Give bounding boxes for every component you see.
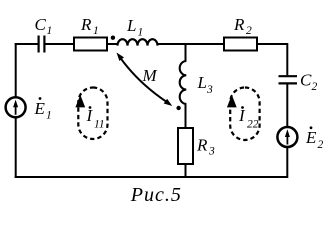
label L1: [126, 16, 143, 39]
svg-text:C: C: [35, 15, 47, 34]
svg-text:R: R: [80, 15, 92, 34]
wire E2 to bottom-right corner: [15, 147, 289, 178]
svg-text:3: 3: [208, 146, 215, 158]
svg-text:Рис.5: Рис.5: [130, 184, 182, 206]
svg-text:I: I: [86, 106, 94, 125]
label L3: [197, 73, 214, 96]
svg-text:E: E: [305, 128, 317, 147]
wire R3 to bottom: [185, 164, 187, 177]
dot mark L3: [176, 106, 180, 110]
svg-text:1: 1: [93, 25, 99, 37]
svg-text:1: 1: [46, 110, 52, 122]
loop current I11 dashed loop: [75, 88, 107, 140]
wire left bottom vertical: [15, 118, 17, 178]
svg-text:22: 22: [247, 119, 259, 131]
svg-text:C: C: [300, 71, 312, 90]
capacitor C1: [39, 36, 45, 53]
svg-text:11: 11: [94, 119, 105, 131]
wire R1 to L1: [107, 43, 118, 45]
wire left top vertical: [15, 43, 17, 97]
resistor R1: [74, 38, 107, 51]
label C1: [35, 15, 53, 37]
source E1: [6, 97, 26, 117]
resistor R3: [178, 128, 193, 164]
wire L1 to R2: [158, 43, 225, 45]
inductor L1: [118, 39, 158, 45]
svg-text:2: 2: [312, 81, 318, 93]
svg-text:3: 3: [206, 84, 213, 96]
label I11 with dot: [86, 106, 105, 131]
wire L3 to R3: [185, 104, 187, 129]
loop current I22 dashed loop: [227, 88, 260, 141]
svg-text:2: 2: [246, 25, 252, 37]
svg-text:R: R: [233, 15, 245, 34]
svg-text:2: 2: [318, 139, 324, 151]
label E1 with dot: [34, 97, 52, 121]
wire C2 to E2: [286, 85, 288, 127]
svg-text:R: R: [196, 135, 208, 154]
wire middle branch top: [185, 44, 187, 62]
label I22 with dot: [238, 106, 259, 131]
wire top-left horizontal: [15, 43, 38, 45]
svg-text:I: I: [238, 106, 246, 125]
svg-text:L: L: [126, 16, 136, 35]
source E2: [277, 127, 297, 147]
svg-text:1: 1: [138, 27, 144, 39]
mutual coupling arrow M: [117, 53, 173, 107]
svg-text:M: M: [142, 66, 158, 85]
resistor R2: [224, 38, 257, 51]
dot mark L1: [111, 36, 115, 40]
label R3: [196, 135, 215, 157]
label C2: [300, 71, 318, 93]
inductor L3: [180, 61, 187, 104]
label R2: [233, 15, 252, 37]
label R1: [80, 15, 99, 37]
svg-text:E: E: [34, 99, 46, 118]
svg-text:L: L: [197, 73, 207, 92]
wire R2 to top-right corner: [257, 43, 288, 75]
svg-text:1: 1: [47, 25, 53, 37]
capacitor C2: [279, 76, 298, 83]
label E2 with dot: [305, 126, 324, 151]
wire C1 to R1: [46, 43, 75, 45]
